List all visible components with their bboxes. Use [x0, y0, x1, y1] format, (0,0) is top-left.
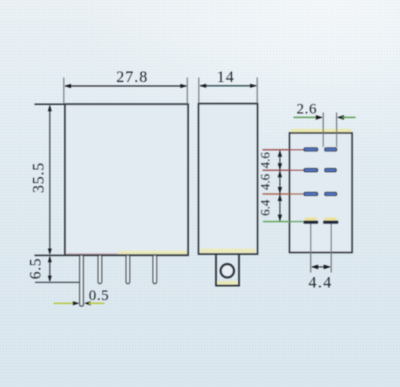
svg-text:6.5: 6.5: [28, 258, 45, 279]
svg-text:4.6: 4.6: [258, 173, 273, 190]
svg-text:4.6: 4.6: [258, 152, 273, 169]
svg-text:6.4: 6.4: [258, 199, 273, 216]
svg-text:2.6: 2.6: [297, 102, 318, 118]
svg-text:14: 14: [217, 69, 235, 86]
svg-text:27.8: 27.8: [116, 69, 148, 86]
svg-text:0.5: 0.5: [89, 288, 110, 304]
svg-text:35.5: 35.5: [31, 162, 48, 193]
svg-text:4.4: 4.4: [308, 275, 332, 292]
